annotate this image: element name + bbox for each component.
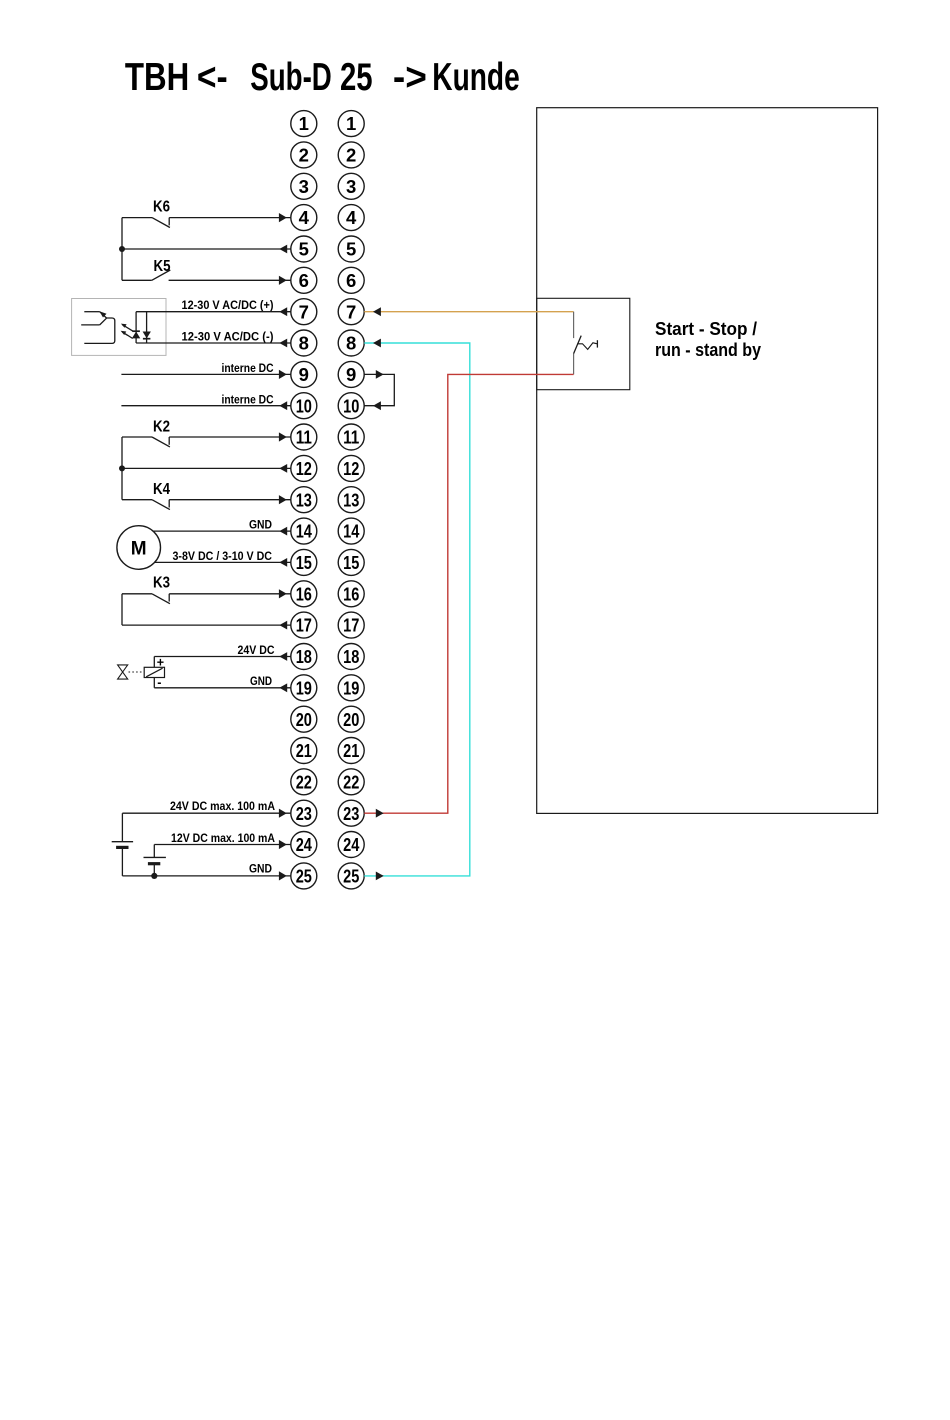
right pin circle 1: [338, 111, 364, 137]
battery 24V: [112, 813, 133, 876]
wire pin 19: [154, 687, 291, 689]
svg-text:17: 17: [343, 615, 359, 636]
svg-text:12: 12: [296, 458, 312, 479]
valve terminal stubs: [153, 657, 155, 688]
right pin circle 9: [338, 361, 364, 387]
right pin circle 19: [338, 675, 364, 701]
right pin circle 14: [338, 518, 364, 544]
svg-text:2: 2: [299, 145, 309, 166]
left pin circle 15: [291, 549, 317, 575]
arrow into pin 23: [279, 809, 287, 818]
switch spring actuator: [577, 340, 597, 349]
right pin circle 25: [338, 863, 364, 889]
svg-text:K6: K6: [153, 199, 170, 216]
arrow into pin 7 right: [373, 307, 381, 316]
wire pin 24: [154, 844, 291, 846]
left pin circle 9: [291, 361, 317, 387]
left pin circle 14: [291, 518, 317, 544]
wire pin 12: [122, 467, 291, 469]
svg-text:9: 9: [346, 364, 356, 385]
svg-text:10: 10: [296, 395, 312, 416]
right pin circle 13: [338, 487, 364, 513]
left pin circle 22: [291, 769, 317, 795]
left pin circle 3: [291, 173, 317, 199]
optocoupler outline box: [72, 299, 166, 356]
arrow into pin 13: [279, 495, 287, 504]
battery 12V: [144, 845, 166, 876]
left pin circle 2: [291, 142, 317, 168]
switch lower terminal: [573, 354, 575, 375]
wire pin 10 left: [121, 405, 291, 407]
svg-text:10: 10: [343, 395, 359, 416]
left pin circle 21: [291, 738, 317, 764]
wire pin 9 left: [121, 373, 291, 375]
title: TBH <- Sub-D 25 -> Kunde: [125, 56, 520, 99]
bus wire K6/K5 vertical: [121, 218, 123, 281]
text Start - Stop / run - stand by: [655, 318, 762, 360]
left pin circle 25: [291, 863, 317, 889]
left pin circle 1: [291, 111, 317, 137]
svg-text:5: 5: [346, 239, 356, 260]
right pin circle 10: [338, 393, 364, 419]
svg-text:20: 20: [296, 709, 312, 730]
svg-text:15: 15: [343, 552, 359, 573]
left pin circle 19: [291, 675, 317, 701]
bus wire K2/K4 vertical: [121, 437, 123, 500]
left pin circle 24: [291, 832, 317, 858]
svg-text:12V DC max. 100 mA: 12V DC max. 100 mA: [171, 831, 275, 845]
svg-text:1: 1: [346, 113, 356, 134]
light emission arrows: [121, 324, 133, 339]
svg-text:15: 15: [296, 552, 312, 573]
svg-text:M: M: [131, 539, 147, 560]
switch box: [537, 298, 630, 389]
arrow out of pin 19: [279, 683, 287, 692]
solenoid coil box: [144, 667, 164, 677]
switch blade: [574, 336, 582, 354]
svg-text:9: 9: [299, 364, 309, 385]
svg-text:24V DC max. 100 mA: 24V DC max. 100 mA: [170, 799, 275, 813]
svg-text:8: 8: [299, 333, 309, 354]
right pin circle 2: [338, 142, 364, 168]
svg-text:GND: GND: [249, 862, 272, 876]
svg-text:K4: K4: [153, 481, 170, 498]
right pin circle 23: [338, 800, 364, 826]
right pin circle 15: [338, 549, 364, 575]
svg-text:7: 7: [299, 301, 309, 322]
svg-text:GND: GND: [249, 518, 272, 532]
arrow out of pin 9 right: [376, 370, 384, 379]
svg-text:6: 6: [299, 270, 309, 291]
right pin circle 7: [338, 299, 364, 325]
right pin circle 24: [338, 832, 364, 858]
wire pin 7 left: [136, 311, 291, 313]
left pin circle 8: [291, 330, 317, 356]
relay contact K4 (lead + blade + stop): [122, 500, 291, 510]
svg-text:13: 13: [343, 489, 359, 510]
arrow into pin 10 right: [373, 401, 381, 410]
right pin circle 8: [338, 330, 364, 356]
svg-text:12: 12: [343, 458, 359, 479]
motor M: [117, 526, 161, 570]
svg-text:19: 19: [296, 677, 312, 698]
right pin circle 4: [338, 205, 364, 231]
wire pin 8 left: [136, 342, 291, 344]
svg-text:11: 11: [296, 427, 312, 448]
right pin circle 12: [338, 455, 364, 481]
arrow into pin 24: [279, 840, 287, 849]
left pin circle 16: [291, 581, 317, 607]
right pin circle 18: [338, 644, 364, 670]
arrow into pin 4: [279, 213, 287, 222]
left pin circle 4: [291, 205, 317, 231]
cyan wire pin 8 to pin 25: [364, 343, 470, 876]
svg-text:<-: <-: [197, 56, 228, 99]
left pin circle 18: [291, 644, 317, 670]
svg-text:7: 7: [346, 301, 356, 322]
arrow into pin 9: [279, 370, 287, 379]
right pin circle 20: [338, 706, 364, 732]
svg-text:16: 16: [343, 583, 359, 604]
svg-text:4: 4: [299, 207, 310, 228]
right pin circle 3: [338, 173, 364, 199]
arrow into pin 25: [279, 871, 287, 880]
wire pin 18: [154, 656, 291, 658]
svg-text:8: 8: [346, 333, 356, 354]
svg-text:11: 11: [343, 427, 359, 448]
right pin circle 17: [338, 612, 364, 638]
svg-text:14: 14: [343, 521, 360, 542]
relay contact K3 (lead + blade + stop): [122, 594, 291, 604]
junction dot pin5 bus: [119, 246, 125, 252]
left pin circle 10: [291, 393, 317, 419]
arrow out of pin 14: [279, 527, 287, 536]
arrow into pin 16: [279, 589, 287, 598]
relay contact K5 (normally open): [122, 270, 291, 280]
svg-text:2: 2: [346, 145, 356, 166]
orange wire pin 7 to switch: [364, 311, 573, 313]
wire pin 14: [153, 530, 291, 532]
arrow into pin 11: [279, 432, 287, 441]
junction dot battery GND: [151, 873, 157, 879]
left pin circle 11: [291, 424, 317, 450]
svg-text:21: 21: [296, 740, 312, 761]
LED pair of optocoupler: [132, 312, 151, 343]
phototransistor of optocoupler: [81, 311, 115, 343]
svg-text:12-30 V AC/DC (+): 12-30 V AC/DC (+): [182, 298, 274, 312]
switch upper terminal: [573, 312, 575, 338]
kunde outline box: [537, 108, 878, 814]
svg-text:24: 24: [343, 834, 360, 855]
valve symbol (hourglass): [118, 665, 128, 679]
svg-text:19: 19: [343, 677, 359, 698]
left pin circle 13: [291, 487, 317, 513]
red wire switch to pin 23: [364, 374, 573, 813]
arrow out of pin 10: [279, 401, 287, 410]
svg-text:5: 5: [299, 239, 309, 260]
svg-text:20: 20: [343, 709, 359, 730]
svg-text:GND: GND: [250, 674, 272, 688]
svg-text:Start - Stop /: Start - Stop /: [655, 318, 757, 339]
svg-text:12-30 V AC/DC (-): 12-30 V AC/DC (-): [182, 329, 274, 343]
arrow out of pin 12: [279, 464, 287, 473]
svg-text:K3: K3: [153, 575, 170, 592]
left pin circle 5: [291, 236, 317, 262]
svg-text:1: 1: [299, 113, 309, 134]
svg-text:3: 3: [299, 176, 309, 197]
arrow into pin 6: [279, 276, 287, 285]
right pin circle 21: [338, 738, 364, 764]
svg-text:25: 25: [296, 866, 312, 887]
relay contact K2 (lead + blade + stop): [122, 437, 291, 447]
wire pin 15: [154, 561, 291, 563]
arrow out of pin 18: [279, 652, 287, 661]
left pin circle 6: [291, 267, 317, 293]
svg-text:3: 3: [346, 176, 356, 197]
right pin circle 6: [338, 267, 364, 293]
left pin circle 12: [291, 455, 317, 481]
svg-text:4: 4: [346, 207, 357, 228]
right pin circle 11: [338, 424, 364, 450]
arrow out of pin 5: [279, 245, 287, 254]
left pin circle 17: [291, 612, 317, 638]
arrow out of pin 15: [279, 558, 287, 567]
svg-text:interne DC: interne DC: [222, 361, 274, 375]
relay contact K6 (lead + blade + stop): [122, 218, 291, 228]
wire pin 23: [122, 812, 291, 814]
svg-text:3-8V DC / 3-10 V DC: 3-8V DC / 3-10 V DC: [173, 549, 273, 563]
wire pin 5: [122, 248, 291, 250]
svg-text:13: 13: [296, 489, 312, 510]
svg-text:16: 16: [296, 583, 312, 604]
svg-text:25: 25: [340, 56, 373, 99]
dotted actuator link: [129, 671, 144, 673]
arrow out of pin 23 right: [376, 809, 384, 818]
arrow into pin 8 right: [373, 339, 381, 348]
svg-text:24V DC: 24V DC: [238, 643, 275, 657]
left pin circle 23: [291, 800, 317, 826]
svg-text:K2: K2: [153, 418, 170, 435]
svg-text:+: +: [157, 656, 164, 670]
left pin circle 20: [291, 706, 317, 732]
svg-text:Kunde: Kunde: [432, 56, 519, 99]
svg-text:22: 22: [343, 771, 359, 792]
wire pin 17: [122, 624, 291, 626]
arrow out of pin 7: [279, 307, 287, 316]
wire pin 25: [122, 875, 291, 877]
svg-text:18: 18: [296, 646, 312, 667]
arrow out of pin 17: [279, 621, 287, 630]
svg-text:14: 14: [296, 521, 313, 542]
svg-text:->: ->: [393, 56, 427, 99]
svg-text:interne DC: interne DC: [222, 392, 274, 406]
svg-text:Sub-D: Sub-D: [250, 56, 331, 99]
left pin circle 7: [291, 299, 317, 325]
svg-text:18: 18: [343, 646, 359, 667]
svg-text:22: 22: [296, 771, 312, 792]
svg-text:K5: K5: [154, 258, 171, 275]
svg-text:17: 17: [296, 615, 312, 636]
right pin circle 5: [338, 236, 364, 262]
loop wire pin 9 to pin 10: [364, 374, 394, 405]
arrow out of pin 8: [279, 339, 287, 348]
right pin circle 16: [338, 581, 364, 607]
svg-text:run - stand by: run - stand by: [655, 339, 762, 360]
svg-text:21: 21: [343, 740, 359, 761]
svg-text:23: 23: [343, 803, 359, 824]
svg-text:24: 24: [296, 834, 313, 855]
svg-text:25: 25: [343, 866, 359, 887]
bus wire K3 vertical: [121, 594, 123, 625]
arrow out of pin 25 right: [376, 872, 384, 881]
right pin circle 22: [338, 769, 364, 795]
junction dot pin12 bus: [119, 465, 125, 471]
svg-text:6: 6: [346, 270, 356, 291]
svg-text:23: 23: [296, 803, 312, 824]
svg-text:TBH: TBH: [125, 56, 189, 99]
